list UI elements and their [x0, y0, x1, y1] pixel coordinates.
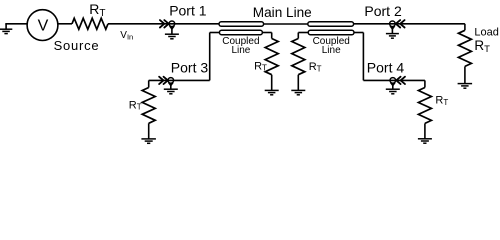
svg-text:RT: RT	[309, 61, 322, 73]
svg-text:RT: RT	[474, 38, 490, 55]
resistor RT (source termination)	[72, 18, 108, 29]
svg-text:Source: Source	[54, 38, 100, 53]
load resistor RT	[458, 30, 471, 66]
resistor RT (port 4 termination)	[418, 88, 431, 124]
ground	[148, 123, 150, 139]
port 3 arrows	[164, 77, 168, 84]
coupled line left	[219, 30, 262, 34]
wire	[362, 33, 364, 81]
svg-text:Port 1: Port 1	[169, 3, 207, 19]
port 2 arrows	[396, 20, 400, 27]
svg-text:RT: RT	[129, 99, 142, 111]
resistor RT (port 3 termination)	[142, 88, 155, 124]
wire	[210, 32, 220, 34]
wire	[271, 33, 273, 39]
wire	[148, 80, 150, 87]
ground (source)	[5, 24, 7, 29]
svg-text:Port 2: Port 2	[364, 3, 402, 19]
ground (port 4)	[392, 83, 394, 89]
ground (load)	[464, 66, 466, 83]
wire	[297, 33, 299, 39]
wire	[58, 23, 72, 25]
wire	[262, 32, 271, 34]
ground	[297, 75, 299, 91]
port 4 terminal	[390, 78, 396, 84]
resistor RT (coupled left termination)	[265, 39, 278, 75]
ground (port 1)	[171, 27, 173, 35]
main line right section	[308, 22, 354, 26]
svg-text:Port 4: Port 4	[367, 59, 405, 75]
port 4 arrows	[396, 77, 400, 84]
resistor RT (coupled right termination)	[292, 39, 305, 75]
svg-text:Load: Load	[474, 26, 498, 38]
svg-text:RT: RT	[435, 95, 448, 107]
port 1 terminal	[169, 21, 175, 27]
ground (port 2)	[391, 27, 393, 34]
wire	[298, 32, 308, 34]
wire	[464, 24, 466, 31]
wire	[149, 79, 210, 81]
wire	[108, 23, 219, 25]
port 1 arrows	[164, 20, 168, 27]
wire	[424, 80, 426, 87]
wire	[354, 32, 363, 34]
wire	[363, 79, 425, 81]
svg-text:Port 3: Port 3	[171, 59, 209, 75]
svg-text:Line: Line	[322, 45, 341, 56]
wire	[264, 23, 308, 25]
svg-text:V: V	[38, 18, 49, 35]
coupled line right	[308, 30, 354, 34]
svg-text:Line: Line	[231, 45, 250, 56]
wire	[354, 23, 465, 25]
svg-text:Main Line: Main Line	[253, 5, 312, 20]
wire	[209, 33, 211, 81]
main line left section	[219, 22, 264, 26]
wire	[5, 23, 27, 25]
ground (port 3)	[170, 83, 172, 89]
svg-text:RT: RT	[89, 1, 105, 19]
voltage source V	[27, 10, 58, 41]
svg-text:VIn: VIn	[120, 30, 133, 41]
port 3 terminal	[168, 78, 174, 84]
ground	[424, 123, 426, 138]
port 2 terminal	[390, 21, 396, 27]
svg-text:RT: RT	[254, 60, 267, 72]
ground	[271, 75, 273, 91]
